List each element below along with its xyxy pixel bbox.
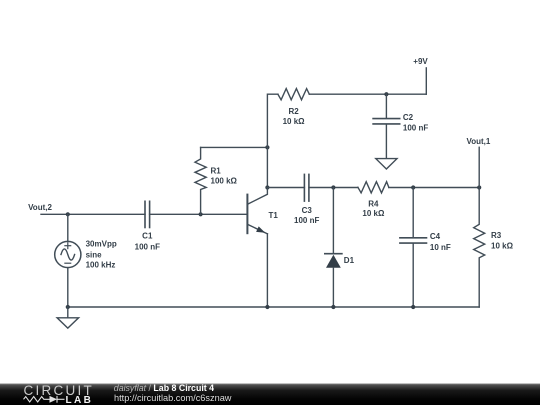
svg-text:100 nF: 100 nF [294, 216, 319, 225]
junction bottom rail at C4 [411, 305, 415, 309]
wire collector node to C3 [267, 187, 304, 189]
junction bottom rail at D1 [331, 305, 335, 309]
node Vout,1 label [466, 137, 490, 146]
label R4 10 kΩ [362, 200, 385, 218]
svg-text:R3: R3 [491, 231, 502, 240]
label R1 100 kΩ [211, 167, 238, 186]
wire Vout,1 lead [478, 147, 480, 187]
svg-text:R4: R4 [368, 200, 379, 209]
svg-text:100 nF: 100 nF [403, 124, 428, 133]
junction collector node [265, 185, 269, 189]
wire collector riser (R2 corner down to collector node) [267, 94, 278, 187]
resistor R3 [474, 188, 485, 308]
junction C4 top [411, 185, 415, 189]
svg-text:daisyflat / Lab 8 Circuit 4: daisyflat / Lab 8 Circuit 4 [114, 383, 214, 393]
CircuitLab logo resistor-diode line [24, 396, 65, 403]
svg-text:C2: C2 [403, 113, 414, 122]
svg-text:http://circuitlab.com/c6sznaw: http://circuitlab.com/c6sznaw [114, 393, 232, 403]
svg-text:10 kΩ: 10 kΩ [491, 241, 514, 250]
resistor R2 [278, 89, 309, 100]
wire D1 cathode to bottom rail [332, 268, 334, 307]
capacitor C3 [304, 174, 309, 201]
svg-text:100 kHz: 100 kHz [86, 261, 116, 270]
svg-text:10 kΩ: 10 kΩ [362, 209, 385, 218]
diode D1 [325, 254, 342, 268]
junction C2 top on supply wire [384, 92, 388, 96]
svg-text:R2: R2 [288, 107, 299, 116]
footer url http://circuitlab.com/c6sznaw [114, 393, 232, 403]
wire D1 anode riser [332, 188, 334, 254]
svg-text:10 nF: 10 nF [430, 243, 451, 252]
capacitor C2 [373, 94, 400, 158]
wire R1 top to collector riser [201, 146, 268, 148]
svg-text:+9V: +9V [413, 57, 428, 66]
voltage source V1 (sine) [55, 241, 81, 267]
svg-text:D1: D1 [344, 256, 355, 265]
label C1 100 nF [135, 232, 160, 252]
label R2 10 kΩ [283, 107, 306, 126]
footer bar [0, 384, 540, 405]
svg-text:100 kΩ: 100 kΩ [211, 176, 238, 185]
junction bottom rail at source [66, 305, 70, 309]
net +9V label [413, 57, 428, 66]
CircuitLab logo CIRCUIT text [24, 383, 95, 398]
wire source V1 bottom lead [67, 268, 69, 307]
svg-text:C3: C3 [302, 206, 313, 215]
wire +9V lead [425, 68, 427, 94]
wire C3 to R4 [309, 187, 358, 189]
svg-text:T1: T1 [269, 211, 279, 220]
label C4 10 nF [430, 232, 451, 252]
wire emitter down to bottom rail [266, 234, 268, 307]
junction R1 bottom on base wire [199, 212, 203, 216]
wire bottom rail [68, 306, 479, 308]
svg-text:Vout,1: Vout,1 [466, 137, 490, 146]
svg-text:10 kΩ: 10 kΩ [283, 117, 306, 126]
capacitor C4 [400, 188, 427, 308]
junction at source top [66, 212, 70, 216]
ground below C2 [376, 159, 397, 169]
wire input net from Vout,2 to C1 [41, 213, 145, 215]
svg-text:R1: R1 [211, 167, 222, 176]
wire C1 to transistor base [150, 213, 247, 215]
wire R4 to Vout,1 node [389, 187, 479, 189]
wire R2 to +9V corner [309, 93, 426, 95]
svg-text:LAB: LAB [66, 395, 94, 405]
junction Vout,1 node [477, 185, 481, 189]
CircuitLab logo LAB text [66, 395, 94, 405]
svg-text:100 nF: 100 nF [135, 243, 160, 252]
svg-text:C4: C4 [430, 232, 441, 241]
node Vout,2 label [28, 203, 52, 212]
junction collector riser / R1 wire [265, 145, 269, 149]
junction bottom rail at emitter [265, 305, 269, 309]
label C3 100 nF [294, 206, 319, 225]
ground below source [57, 307, 79, 328]
svg-text:sine: sine [86, 251, 103, 260]
capacitor C1 [145, 201, 150, 227]
svg-text:30mVpp: 30mVpp [86, 240, 117, 249]
transistor T1 (NPN) [247, 188, 267, 234]
svg-text:C1: C1 [142, 232, 153, 241]
label C2 100 nF [403, 113, 428, 133]
label D1 [344, 256, 355, 265]
resistor R1 [195, 147, 206, 214]
resistor R4 [358, 182, 389, 193]
footer title daisyflat / Lab 8 Circuit 4 [114, 383, 214, 393]
junction D1 top [331, 185, 335, 189]
wire source V1 top lead [67, 214, 69, 241]
svg-text:Vout,2: Vout,2 [28, 203, 52, 212]
label R3 10 kΩ [491, 231, 514, 250]
value label 30mVpp sine 100 kHz [86, 240, 117, 270]
label T1 [269, 211, 279, 220]
